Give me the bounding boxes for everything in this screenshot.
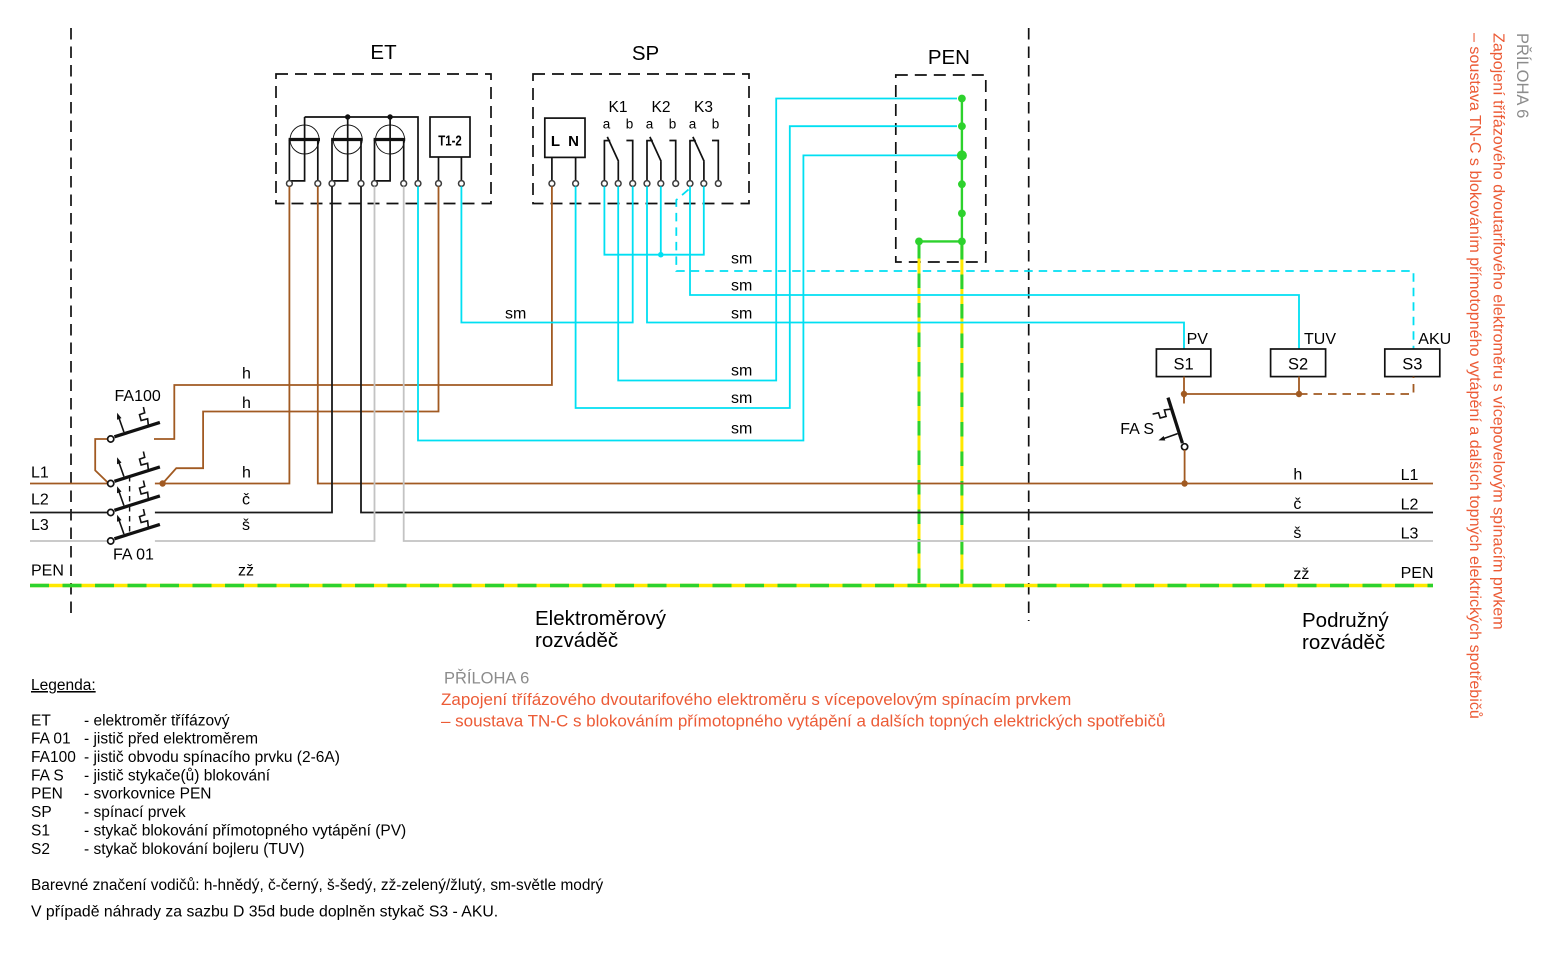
svg-text:Barevné značení vodičů: h-hněd: Barevné značení vodičů: h-hnědý, č-černý… [31,877,604,894]
svg-text:ET: ET [31,712,51,729]
partition dashed line left (Elektromerovy rozvadec boundary) [70,28,72,618]
circuit breaker FA 01 pole 3 [108,509,160,544]
wire L2 input (black, left) [30,512,108,514]
SP terminals L N and K1-K3 [549,181,721,187]
relay contact K1a [604,137,619,181]
svg-text:FA 01: FA 01 [113,547,154,564]
svg-text:- jistič obvodu spínacího prvk: - jistič obvodu spínacího prvku (2-6A) [84,749,340,766]
svg-text:Legenda:: Legenda: [31,677,96,694]
electricity meter ET dashed enclosure [276,74,491,204]
ET voltage bus [305,117,418,181]
svg-text:S3: S3 [1402,356,1422,374]
svg-text:PEN: PEN [1401,565,1434,582]
relay contact K3a [689,137,704,181]
svg-text:T1-2: T1-2 [438,133,462,150]
svg-text:L1: L1 [31,465,49,482]
svg-text:a: a [646,117,654,132]
wire FA S to L1 line (brown) [1184,450,1186,484]
circuit breaker FA 01 pole 2 [108,481,160,516]
svg-text:rozváděč: rozváděč [1302,631,1385,654]
junction K2a2 on bus [658,252,664,258]
circuit breaker FA100 [108,407,160,442]
svg-text:FA 01: FA 01 [31,731,71,748]
svg-text:K3: K3 [694,99,713,116]
wire L2-c meter input (black) [155,186,332,512]
svg-text:FA S: FA S [31,767,64,784]
svg-text:SP: SP [31,804,52,821]
wire voltage tap to ET terminal 8 via h bus 2 (brown) [163,186,439,483]
svg-text:- spínací prvek: - spínací prvek [84,804,186,821]
wire FA100 output to h bus 1 (brown) [154,186,552,439]
PEN riser right (yellow-green) to PEN block [960,245,963,584]
PEN conductor zz (yellow with green dashes) [30,584,1433,587]
svg-text:L2: L2 [1401,497,1419,514]
svg-text:a: a [603,117,611,132]
svg-text:L2: L2 [31,492,49,509]
PEN bus bar green [919,99,962,242]
svg-text:sm: sm [505,306,526,323]
svg-text:Zapojení třífázového dvoutarif: Zapojení třífázového dvoutarifového elek… [1490,33,1508,630]
junction FA S on L1 line [1181,480,1187,486]
svg-text:Zapojení třífázového dvoutarif: Zapojení třífázového dvoutarifového elek… [441,690,1071,709]
meter measuring element 1 [289,117,320,181]
svg-text:S1: S1 [1174,356,1194,374]
wire contact K3a1 to contactor S3 (cyan dashed, sm) [676,190,1413,350]
tariff unit T1-2 [430,117,470,181]
svg-text:FA100: FA100 [115,388,161,405]
junction S1 coil node [1181,391,1187,397]
svg-text:FA100: FA100 [31,749,76,766]
svg-text:TUV: TUV [1304,331,1336,348]
svg-text:PŘÍLOHA 6: PŘÍLOHA 6 [444,669,529,688]
svg-text:FA S: FA S [1120,421,1154,438]
wire L3-s line out of meter (grey) [404,186,1433,541]
svg-text:L3: L3 [31,517,49,534]
svg-text:sm: sm [731,363,752,380]
svg-text:š: š [242,517,250,534]
wire contact K1a2 to PEN dot 1 (cyan, sm) [618,99,957,381]
junction S2 coil node [1296,391,1302,397]
svg-text:č: č [242,492,250,509]
relay contact K1b [626,141,632,181]
wire ET terminal 9 to contact K1b (cyan, sm) [461,186,632,322]
wire SP N to PEN dot 2 (cyan, sm) [576,126,957,408]
svg-text:zž: zž [238,563,254,580]
wire S1-S2 coil bus (brown) [1184,393,1299,395]
svg-text:PEN: PEN [31,786,63,803]
svg-text:V případě náhrady za sazbu D 3: V případě náhrady za sazbu D 35d bude do… [31,904,498,921]
wire FA S top stub (brown) [1183,394,1185,404]
wire SP contact bus K1a1-K2a2-K3a2 (cyan) [604,186,703,254]
svg-text:sm: sm [731,251,752,268]
svg-text:PŘÍLOHA 6: PŘÍLOHA 6 [1513,33,1532,118]
ET terminals 1-9 [287,181,465,187]
svg-text:h: h [1293,467,1302,484]
meter measuring element 3 [374,117,406,181]
svg-text:a: a [689,117,697,132]
svg-text:sm: sm [731,390,752,407]
wire contact K3a1 to contactor S2 (cyan, sm) [690,186,1299,349]
wire K2a2 stub to bus (cyan) [660,186,662,254]
contactor S3 [1385,349,1440,377]
circuit breaker FA 01 pole 1 [108,452,160,487]
wire L1 input (brown, left) [30,483,108,485]
svg-text:K2: K2 [652,99,671,116]
svg-text:rozváděč: rozváděč [535,629,618,652]
FA 01 mechanical link (dashed) [129,476,131,534]
svg-text:b: b [626,117,634,132]
svg-text:zž: zž [1293,566,1309,583]
wire L3-s meter input (grey) [155,186,375,541]
svg-text:S2: S2 [1288,356,1308,374]
svg-text:PEN: PEN [31,563,64,580]
svg-text:– soustava TN-C s blokováním p: – soustava TN-C s blokováním přímotopnéh… [1466,33,1484,719]
wire FA100 feed tap (brown) [95,439,108,483]
junction FA01 output node [159,480,165,486]
svg-text:h: h [242,395,251,412]
svg-text:PEN: PEN [928,46,970,69]
svg-text:č: č [1293,496,1301,513]
switching element SP dashed enclosure [533,74,749,204]
wire L1-h line out of meter (brown) [318,186,1433,483]
svg-text:K1: K1 [609,99,628,116]
svg-text:L1: L1 [1401,467,1419,484]
svg-text:L3: L3 [1401,525,1419,542]
svg-text:S1: S1 [31,822,50,839]
svg-text:sm: sm [731,278,752,295]
svg-text:b: b [712,117,720,132]
wire FA01 L1 output segment with meter feed (brown) [155,186,290,483]
svg-text:SP: SP [632,42,659,65]
svg-text:S2: S2 [31,841,50,858]
PEN terminal block dashed enclosure [896,75,986,262]
PEN bus terminal dots [915,95,967,246]
svg-text:AKU: AKU [1418,331,1451,348]
svg-text:– soustava TN-C s blokováním p: – soustava TN-C s blokováním přímotopnéh… [441,712,1165,731]
svg-text:Podružný: Podružný [1302,609,1389,632]
svg-text:š: š [1293,525,1301,542]
svg-text:- stykač blokování bojleru (TU: - stykač blokování bojleru (TUV) [84,841,305,858]
relay contact K2b [669,141,675,181]
svg-text:- stykač blokování přímotopnéh: - stykač blokování přímotopného vytápění… [84,822,406,839]
svg-text:N: N [568,133,579,150]
svg-text:- elektroměr třífázový: - elektroměr třífázový [84,712,230,729]
svg-text:ET: ET [370,41,397,64]
svg-text:b: b [669,117,677,132]
relay contact K2a [646,137,661,181]
wire ET terminal 7 to PEN dot 3 (cyan, sm) [418,155,957,440]
legend rows [31,712,406,857]
svg-text:h: h [242,465,251,482]
contactor S2 [1271,349,1326,377]
svg-text:- svorkovnice PEN: - svorkovnice PEN [84,786,211,803]
svg-text:- jistič před elektroměrem: - jistič před elektroměrem [84,731,258,748]
svg-text:sm: sm [731,306,752,323]
wire L2-c line out of meter (black) [361,186,1433,512]
relay contact K3b [712,141,718,181]
svg-text:Elektroměrový: Elektroměrový [535,607,667,630]
wire S1 coil to bus (brown) [1183,377,1185,398]
SP receiver module L N [545,118,585,181]
wire S2 coil stub (brown) [1298,377,1300,394]
svg-text:sm: sm [731,421,752,438]
svg-text:h: h [242,366,251,383]
junction on ET bus at element 2 [345,114,350,119]
wire S2-S3 coil bus (brown dashed) [1299,377,1414,394]
PEN riser left (yellow-green) to PEN block [918,244,921,584]
contactor S1 [1156,349,1210,377]
svg-text:L: L [551,133,560,150]
wire L3 input (grey, left) [30,540,108,542]
circuit breaker FA S [1153,398,1188,450]
wire contact K2a1 to contactor S1 (cyan, sm) [647,186,1184,349]
junction on ET bus at element 3 [387,114,392,119]
meter measuring element 2 [331,117,363,181]
svg-text:- jistič stykače(ů) blokování: - jistič stykače(ů) blokování [84,767,271,784]
partition dashed line right (Podruzny rozvadec boundary) [1028,28,1030,621]
svg-text:PV: PV [1187,331,1209,348]
